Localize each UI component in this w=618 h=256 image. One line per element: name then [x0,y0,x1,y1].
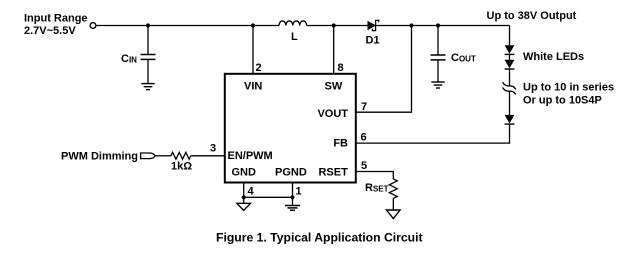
capacitor COUT [431,26,446,82]
resistor RSET [389,179,397,198]
LED D2 (white LED) [505,45,515,54]
svg-text:1: 1 [296,185,302,197]
svg-text:2.7V~5.5V: 2.7V~5.5V [24,25,76,37]
svg-text:2: 2 [256,62,262,74]
node COUT junction [436,23,440,27]
svg-text:EN/PWM: EN/PWM [228,150,273,162]
svg-text:L: L [291,31,298,43]
wire LED chain to FB [356,124,510,143]
svg-text:8: 8 [338,62,344,74]
resistor R1 1k [171,152,191,159]
wire GND to PGND [244,196,293,198]
svg-text:7: 7 [361,101,367,113]
input terminal [90,23,96,29]
svg-text:RSET: RSET [365,182,389,194]
label: Up to 10 in series / Or up to 10S4P [523,82,614,107]
node PGND junction [290,195,294,199]
svg-text:3: 3 [210,143,216,155]
diode D1 (schottky) [368,20,379,30]
svg-text:White LEDs: White LEDs [523,51,584,63]
svg-text:FB: FB [333,137,348,149]
label: Input Range 2.7V~5.5V [24,13,88,38]
inductor L [279,21,307,26]
svg-text:Input Range: Input Range [24,13,88,25]
node SW junction [332,23,336,27]
node GND junction [242,195,246,199]
capacitor CIN [141,26,156,84]
svg-text:Up to 38V Output: Up to 38V Output [487,10,577,22]
wire diode to output corner [374,25,510,27]
svg-text:VOUT: VOUT [317,108,348,120]
node VIN junction [251,23,255,27]
LED D3 (white LED) [505,60,515,69]
ground (GND, arrow) [237,197,251,210]
ground (PGND, earth) [285,197,300,210]
wire VOUT pin 7 [356,26,412,113]
wire resistor to pin 3 [191,155,225,157]
svg-text:D1: D1 [366,35,380,47]
svg-text:RSET: RSET [318,167,348,179]
break symbol (chain continuation) [503,82,516,94]
wire PGND pin 1 drop [292,183,294,198]
svg-text:Up to 10 in series: Up to 10 in series [523,82,614,94]
svg-text:CIN: CIN [121,53,137,65]
wire terminal to resistor [155,155,171,157]
svg-text:Figure 1. Typical Application: Figure 1. Typical Application Circuit [216,231,423,245]
wire output corner down to LED chain [509,26,511,46]
op IC box U1 [225,74,356,183]
svg-text:6: 6 [361,132,367,144]
svg-text:GND: GND [232,167,257,179]
wire LED2 to break [509,69,511,86]
wire top rail input to inductor [96,25,279,27]
svg-text:VIN: VIN [244,80,262,92]
svg-text:Or up to 10S4P: Or up to 10S4P [523,95,602,107]
wire GND pin 4 drop [243,183,245,198]
ground (COUT, earth) [431,82,444,88]
wire LED1 to LED2 [509,54,511,59]
svg-text:5: 5 [361,160,367,172]
svg-text:COUT: COUT [451,52,476,64]
svg-text:PGND: PGND [275,167,307,179]
LED D4 (white LED) [505,115,515,124]
wire RSET pin 5 [356,172,393,180]
input terminal (PWM tag) [141,153,156,159]
svg-text:PWM Dimming: PWM Dimming [61,150,138,162]
ground (CIN, earth) [141,84,154,90]
svg-text:4: 4 [248,185,255,197]
wire SW drop pin 8 [333,26,335,74]
wire VIN drop pin 2 [252,26,254,74]
wire break to LED3 [509,91,511,115]
svg-text:SW: SW [325,80,343,92]
svg-text:1kΩ: 1kΩ [171,161,192,173]
ground (RSET, arrow) [387,210,401,219]
wire RSET to ground [392,198,394,210]
wire inductor to diode [307,25,369,27]
node VOUT junction [409,23,413,27]
node CIN junction [146,23,150,27]
